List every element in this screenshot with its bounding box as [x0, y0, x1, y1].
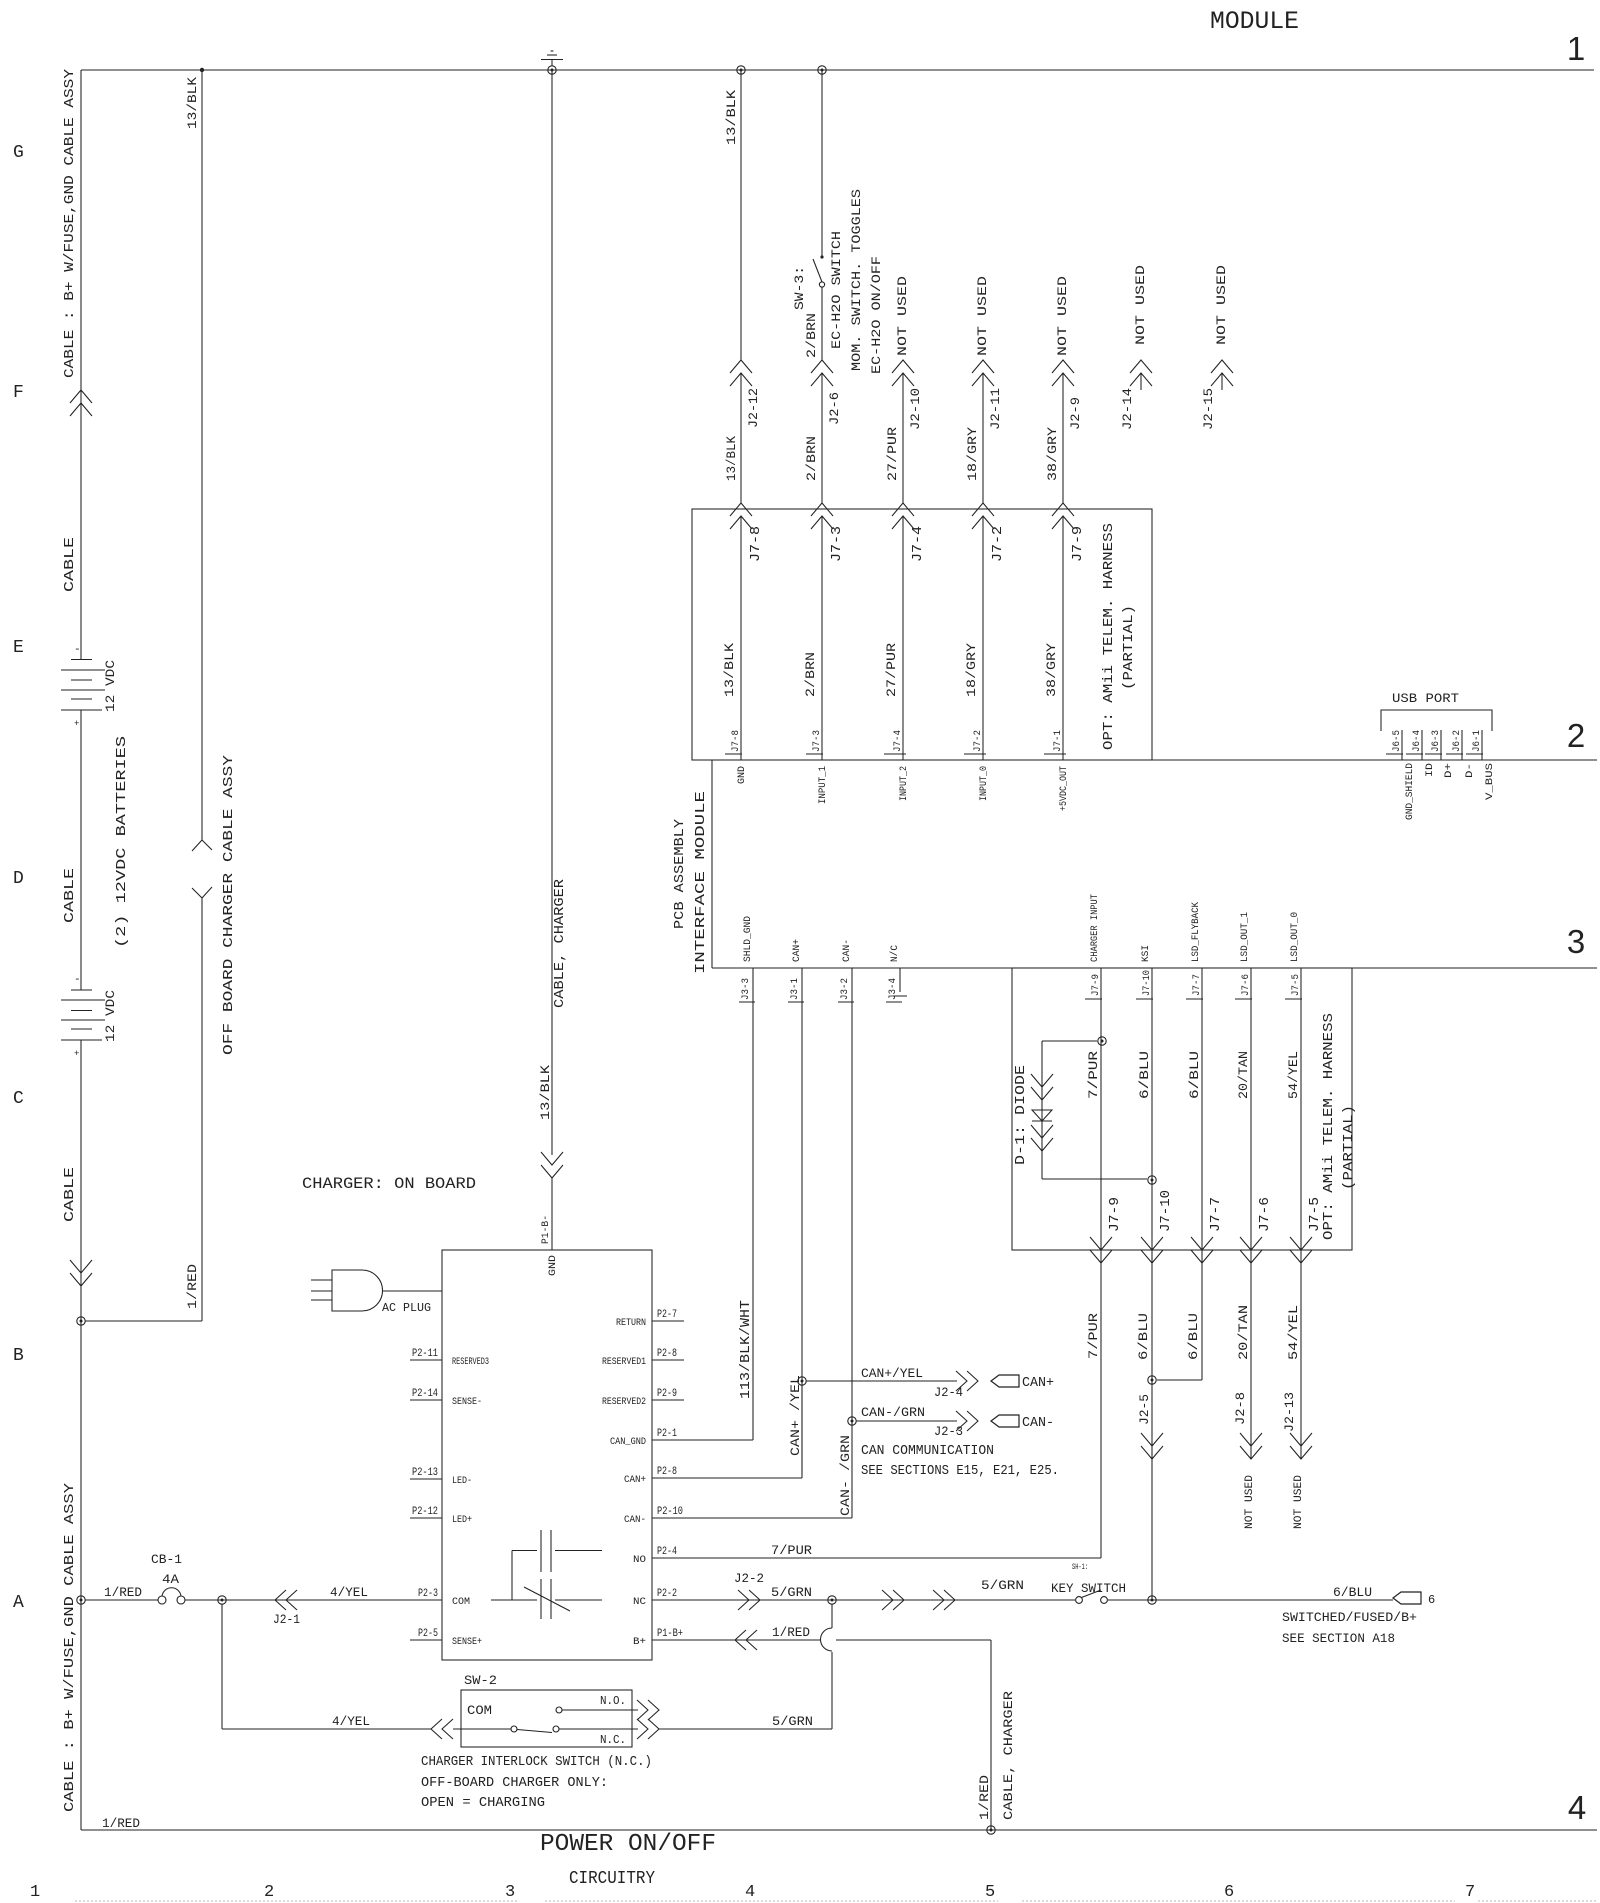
wire 13/BLK above SW-3 [821, 70, 823, 256]
connector chevron at harness box x822 [811, 503, 833, 516]
svg-text:C: C [13, 1089, 24, 1109]
svg-text:J3-3: J3-3 [741, 978, 752, 1000]
svg-text:J7-9: J7-9 [1107, 1197, 1123, 1232]
charger pin stub P2-13 [410, 1478, 442, 1480]
svg-text:1: 1 [30, 1883, 40, 1902]
svg-text:2/BRN: 2/BRN [804, 313, 819, 358]
svg-text:J2-2: J2-2 [734, 1571, 764, 1586]
svg-text:RESERVED1: RESERVED1 [602, 1357, 646, 1368]
switch key switch [1076, 1597, 1083, 1604]
svg-text:7/PUR: 7/PUR [1086, 1051, 1101, 1099]
svg-text:CABLE : B+ W/FUSE,GND CABLE AS: CABLE : B+ W/FUSE,GND CABLE ASSY [62, 1482, 78, 1812]
node junction 6BLU join [1148, 1376, 1156, 1384]
svg-text:P2-8: P2-8 [657, 1466, 677, 1478]
svg-text:P1-B-: P1-B- [541, 1215, 552, 1244]
usb pin tick J6-2 [1461, 730, 1463, 760]
node junction diode top on 7/PUR [1098, 1037, 1106, 1045]
svg-text:J7-7: J7-7 [1192, 974, 1203, 996]
svg-text:-: - [74, 644, 81, 656]
svg-text:PCB ASSEMBLY: PCB ASSEMBLY [672, 818, 688, 929]
wire hop over 5GRN riser [821, 1628, 833, 1651]
svg-text:SENSE-: SENSE- [452, 1397, 482, 1408]
wire 6/BLU KSI down [1151, 1250, 1153, 1600]
svg-text:J2-9: J2-9 [1068, 397, 1083, 430]
battery BAT1 12VDC [61, 644, 105, 729]
svg-text:CAN-: CAN- [624, 1515, 646, 1526]
wire SHLD_GND riser 113/BLK/WHT [752, 968, 754, 1440]
svg-text:4: 4 [745, 1883, 755, 1902]
svg-text:(2) 12VDC BATTERIES: (2) 12VDC BATTERIES [114, 736, 130, 948]
svg-text:54/YEL: 54/YEL [1286, 1051, 1301, 1099]
svg-text:NOT USED: NOT USED [1244, 1475, 1256, 1529]
svg-text:MOM. SWITCH. TOGGLES: MOM. SWITCH. TOGGLES [849, 189, 864, 371]
wire top rail line 1 [81, 69, 1594, 71]
svg-text:6/BLU: 6/BLU [1136, 1313, 1151, 1360]
svg-text:J7-6: J7-6 [1257, 1197, 1273, 1232]
svg-text:POWER ON/OFF: POWER ON/OFF [540, 1831, 716, 1858]
svg-text:6/BLU: 6/BLU [1333, 1585, 1372, 1600]
connector chevron exit x1301 [1290, 1250, 1312, 1263]
svg-text:INTERFACE MODULE: INTERFACE MODULE [693, 791, 709, 974]
svg-text:J2-5: J2-5 [1137, 1394, 1152, 1425]
node junction key switch out [1148, 1596, 1156, 1604]
svg-text:P2-9: P2-9 [657, 1388, 677, 1400]
wire 54/YEL in harness box x1301 [1300, 968, 1302, 1250]
charger pin stub P2-3 [410, 1599, 442, 1601]
svg-text:CAN COMMUNICATION: CAN COMMUNICATION [861, 1443, 994, 1459]
svg-text:13/BLK: 13/BLK [185, 77, 200, 129]
svg-text:J7-7: J7-7 [1208, 1197, 1224, 1232]
svg-text:RESERVED2: RESERVED2 [602, 1397, 646, 1408]
svg-text:EC-H2O ON/OFF: EC-H2O ON/OFF [869, 256, 884, 374]
svg-text:NOT USED: NOT USED [1133, 265, 1148, 345]
wire 7/PUR NO row [652, 1557, 1101, 1559]
node junction ground on rail1 [548, 66, 556, 74]
svg-text:1/RED: 1/RED [104, 1585, 142, 1600]
wire CAN- riser [851, 968, 853, 1518]
connector J2-6 chevron [811, 360, 833, 373]
svg-text:CABLE: CABLE [62, 537, 78, 592]
svg-text:P2-11: P2-11 [412, 1348, 438, 1360]
svg-text:P2-10: P2-10 [657, 1506, 683, 1518]
node open circle 5GRN branch [828, 1596, 836, 1604]
svg-text:B: B [13, 1346, 24, 1366]
node junction A-row left [77, 1596, 85, 1604]
svg-text:7: 7 [1465, 1883, 1475, 1902]
svg-text:D: D [13, 869, 24, 889]
usb pin tick J6-5 [1401, 730, 1403, 760]
svg-text:N/C: N/C [889, 945, 901, 962]
svg-text:NOT USED: NOT USED [1293, 1475, 1305, 1529]
node junction bottom rail [987, 1826, 995, 1834]
svg-text:J3-4: J3-4 [888, 978, 899, 1000]
svg-text:CABLE, CHARGER: CABLE, CHARGER [552, 878, 568, 1008]
wire CAN+/YEL to J2-4 [806, 1380, 957, 1382]
svg-text:J2-12: J2-12 [746, 388, 761, 428]
svg-text:J7-10: J7-10 [1142, 970, 1153, 996]
box charger on-board [442, 1250, 652, 1660]
svg-text:12 VDC: 12 VDC [103, 660, 118, 712]
svg-text:12 VDC: 12 VDC [103, 990, 118, 1042]
wire 4/YEL drop [221, 1604, 223, 1729]
svg-text:18/GRY: 18/GRY [964, 643, 979, 697]
svg-text:LED+: LED+ [452, 1515, 472, 1526]
svg-text:CAN-: CAN- [1022, 1415, 1054, 1431]
svg-text:+5VDC_OUT: +5VDC_OUT [1059, 766, 1070, 811]
connector chevron at harness box x741 [730, 503, 752, 516]
svg-text:LSD_FLYBACK: LSD_FLYBACK [1191, 902, 1202, 962]
svg-text:P2-8: P2-8 [657, 1348, 677, 1360]
usb pin tick J6-3 [1440, 730, 1442, 760]
ac plug symbol [332, 1270, 362, 1311]
svg-text:(PARTIAL): (PARTIAL) [1341, 1105, 1357, 1190]
connector chevron exit x1101 [1090, 1250, 1112, 1263]
svg-text:CAN+: CAN+ [792, 939, 803, 962]
switch SW-3 [820, 255, 823, 258]
svg-text:D-1: DIODE: D-1: DIODE [1013, 1065, 1029, 1165]
svg-text:J7-9: J7-9 [1091, 974, 1102, 996]
svg-text:CAN+: CAN+ [624, 1475, 646, 1486]
svg-text:P2-13: P2-13 [412, 1467, 438, 1479]
svg-text:RESERVED3: RESERVED3 [452, 1357, 489, 1368]
svg-text:7/PUR: 7/PUR [1086, 1313, 1101, 1359]
svg-text:4A: 4A [162, 1572, 179, 1587]
connector J2-2 chevron [749, 1590, 760, 1610]
svg-text:SWITCHED/FUSED/B+: SWITCHED/FUSED/B+ [1282, 1610, 1417, 1625]
connector SW-2 NO exit chevron [648, 1700, 659, 1720]
wire 13/BLK J2-12 [740, 70, 742, 360]
svg-text:CABLE : B+ W/FUSE,GND CABLE AS: CABLE : B+ W/FUSE,GND CABLE ASSY [62, 68, 78, 378]
svg-text:5/GRN: 5/GRN [981, 1578, 1024, 1593]
connector J2-10 chevron [892, 360, 914, 373]
svg-text:INPUT_2: INPUT_2 [899, 766, 910, 801]
svg-text:J7-9: J7-9 [1070, 526, 1086, 562]
svg-text:5/GRN: 5/GRN [771, 1585, 812, 1600]
svg-text:6/BLU: 6/BLU [1137, 1051, 1152, 1099]
svg-text:4/YEL: 4/YEL [330, 1585, 368, 1600]
connector chevron exit x1251 [1240, 1250, 1262, 1263]
svg-text:SH-1:: SH-1: [1072, 1563, 1088, 1572]
svg-text:NOT USED: NOT USED [1214, 265, 1229, 345]
connector J2-3 chevron [967, 1411, 978, 1431]
wire SW-2 NO out [562, 1709, 638, 1711]
svg-text:D-: D- [1465, 763, 1476, 778]
wire 38/GRY J2-9 [1062, 374, 1064, 503]
svg-text:SW-3:: SW-3: [792, 266, 807, 310]
svg-text:J7-6: J7-6 [1241, 974, 1252, 996]
svg-text:CAN+: CAN+ [1022, 1375, 1054, 1391]
connector SW-2 input chevron [431, 1719, 442, 1739]
svg-text:2/BRN: 2/BRN [803, 652, 818, 697]
svg-text:18/GRY: 18/GRY [965, 427, 980, 481]
svg-text:D+: D+ [1444, 763, 1455, 778]
svg-text:J2-6: J2-6 [827, 392, 842, 425]
svg-text:ID: ID [1425, 763, 1436, 777]
svg-text:CAN_GND: CAN_GND [610, 1437, 646, 1448]
svg-text:NOT USED: NOT USED [1055, 276, 1070, 356]
connector J2-11 chevron [972, 360, 994, 373]
svg-text:CHARGER INTERLOCK SWITCH (N.C.: CHARGER INTERLOCK SWITCH (N.C.) [421, 1754, 652, 1770]
svg-text:CHARGER: ON BOARD: CHARGER: ON BOARD [302, 1175, 476, 1193]
svg-text:OPT: AMii TELEM. HARNESS: OPT: AMii TELEM. HARNESS [1321, 1013, 1337, 1240]
connector J2-9 chevron [1052, 360, 1074, 373]
svg-text:J2-14: J2-14 [1120, 388, 1135, 430]
svg-text:5/GRN: 5/GRN [772, 1714, 813, 1729]
svg-text:J7-3: J7-3 [812, 730, 823, 752]
wire 1/RED B+ row [652, 1639, 820, 1641]
node dot at top rail x202 [200, 68, 204, 72]
usb pin tick J6-1 [1481, 730, 1483, 760]
svg-text:J2-11: J2-11 [988, 388, 1003, 430]
svg-text:J2-10: J2-10 [908, 388, 923, 430]
svg-text:J7-8: J7-8 [731, 730, 742, 752]
svg-text:CABLE, CHARGER: CABLE, CHARGER [1001, 1691, 1016, 1820]
svg-text:1/RED: 1/RED [772, 1625, 810, 1640]
svg-text:CB-1: CB-1 [151, 1552, 182, 1567]
svg-text:CAN- /GRN: CAN- /GRN [838, 1435, 853, 1516]
battery BAT2 12VDC [61, 974, 105, 1059]
connector chevron on left wire row F [70, 390, 92, 403]
wire 7/PUR to NO [1100, 1250, 1102, 1558]
node junction CAN- [848, 1417, 856, 1425]
svg-text:LSD_OUT_0: LSD_OUT_0 [1290, 912, 1301, 962]
svg-text:SW-2: SW-2 [464, 1673, 497, 1688]
wire ac plug to charger [383, 1290, 443, 1292]
svg-text:F: F [13, 383, 24, 403]
connector J2-8 chevron [1240, 1446, 1262, 1459]
svg-text:J7-2: J7-2 [973, 730, 984, 752]
svg-text:OPEN = CHARGING: OPEN = CHARGING [421, 1795, 545, 1811]
box OPT AMii telem harness lower [1012, 968, 1352, 1250]
svg-text:J6-1: J6-1 [1472, 730, 1483, 752]
svg-text:J7-5: J7-5 [1307, 1197, 1323, 1232]
svg-text:J7-8: J7-8 [748, 526, 764, 562]
svg-text:COM: COM [467, 1703, 492, 1718]
svg-text:GND_SHIELD: GND_SHIELD [1405, 763, 1416, 820]
svg-text:CAN-: CAN- [842, 939, 853, 962]
svg-text:CABLE: CABLE [62, 868, 78, 923]
svg-text:6/BLU: 6/BLU [1187, 1051, 1202, 1099]
wire 7/PUR in harness box x1101 [1100, 968, 1102, 1250]
svg-text:6: 6 [1224, 1883, 1234, 1902]
wire 2/BRN J2-6 [821, 374, 823, 503]
svg-text:J7-10: J7-10 [1158, 1190, 1174, 1232]
wire N/C stub [899, 968, 901, 992]
svg-text:5: 5 [985, 1883, 995, 1902]
wire diode branch [1042, 1040, 1097, 1042]
svg-text:NO: NO [633, 1555, 646, 1566]
svg-text:MODULE: MODULE [1210, 7, 1299, 36]
svg-text:V_BUS: V_BUS [1485, 763, 1496, 800]
svg-text:P1-B+: P1-B+ [657, 1628, 683, 1640]
svg-text:27/PUR: 27/PUR [885, 427, 900, 481]
svg-text:13/BLK: 13/BLK [722, 643, 737, 697]
svg-text:OFF-BOARD CHARGER ONLY:: OFF-BOARD CHARGER ONLY: [421, 1775, 608, 1791]
svg-text:+: + [74, 1049, 79, 1059]
terminal 6 pill [1393, 1592, 1421, 1604]
connector chevron exit x1152 [1141, 1250, 1163, 1263]
svg-text:CAN+/YEL: CAN+/YEL [861, 1366, 923, 1381]
svg-text:J3-2: J3-2 [840, 978, 851, 1000]
connector chevrons mid pair 1 [893, 1590, 904, 1610]
wire bottom rail line 4 [81, 1829, 1597, 1831]
charger pin stub P2-14 [410, 1399, 442, 1401]
connector J2-14 stub [1130, 360, 1152, 373]
svg-text:2: 2 [264, 1883, 274, 1902]
svg-text:J2-3: J2-3 [934, 1424, 963, 1439]
wire rail line 2 PCB top edge [692, 759, 1597, 761]
connector SW-2 NC exit chevron [648, 1719, 659, 1739]
svg-text:J7-3: J7-3 [829, 526, 845, 562]
box OPT AMii telem harness upper [692, 509, 1152, 760]
svg-text:SEE SECTION A18: SEE SECTION A18 [1282, 1631, 1395, 1646]
charger pin stub P2-11 [410, 1359, 442, 1361]
relay contact link [511, 1551, 513, 1601]
wire 6/BLU in harness box x1152 [1151, 968, 1153, 1250]
svg-text:P2-3: P2-3 [418, 1588, 438, 1600]
svg-text:N.C.: N.C. [600, 1733, 626, 1747]
svg-text:J7-2: J7-2 [990, 526, 1006, 562]
svg-text:RETURN: RETURN [616, 1318, 646, 1329]
wire 5/GRN NC to key switch [652, 1599, 1075, 1601]
connector J2-12 chevron [730, 360, 752, 373]
svg-text:6: 6 [1428, 1593, 1435, 1607]
svg-text:USB PORT: USB PORT [1392, 691, 1459, 706]
svg-text:4: 4 [1568, 1789, 1586, 1826]
svg-text:20/TAN: 20/TAN [1236, 1305, 1251, 1360]
wire CAN+ riser [801, 968, 803, 1478]
diode D-1 symbol [1031, 1087, 1053, 1100]
wire 20/TAN J2-8 [1250, 1250, 1252, 1459]
terminal CAN- pill [991, 1415, 1019, 1427]
svg-text:INPUT_1: INPUT_1 [818, 766, 829, 804]
switch SW-2 contacts [511, 1726, 517, 1732]
svg-text:J7-1: J7-1 [1053, 730, 1064, 752]
svg-text:AC PLUG: AC PLUG [382, 1301, 431, 1315]
svg-text:7/PUR: 7/PUR [771, 1543, 812, 1558]
wire into SW-2 [453, 1728, 511, 1730]
connector chevron at harness box x983 [972, 503, 994, 516]
connector chevron down on left wire row B [70, 1273, 92, 1286]
charger pin stub P2-5 [410, 1639, 442, 1641]
wire 6/BLU in harness box x1202 [1201, 968, 1203, 1250]
ground symbol [541, 59, 563, 61]
svg-text:27/PUR: 27/PUR [884, 643, 899, 697]
svg-text:A: A [13, 1593, 24, 1613]
svg-text:E: E [13, 638, 24, 658]
svg-text:OFF BOARD CHARGER CABLE ASSY: OFF BOARD CHARGER CABLE ASSY [221, 754, 237, 1055]
svg-text:EC-H2O SWITCH: EC-H2O SWITCH [829, 231, 844, 349]
wire 13/BLK charger ground vertical [551, 70, 553, 1155]
node junction diode bottom on 6/BLU [1148, 1176, 1156, 1184]
wire 54/YEL J2-13 [1300, 1250, 1302, 1459]
svg-text:NOT USED: NOT USED [975, 276, 990, 356]
connector chevrons mid pair 2 [944, 1590, 955, 1610]
svg-text:G: G [13, 143, 24, 163]
disconnect symbol upper half [192, 840, 212, 851]
svg-text:SENSE+: SENSE+ [452, 1637, 482, 1648]
usb pin tick J6-4 [1421, 730, 1423, 760]
svg-text:113/BLK/WHT: 113/BLK/WHT [738, 1300, 754, 1399]
svg-text:1/RED: 1/RED [102, 1816, 140, 1831]
svg-text:1/RED: 1/RED [977, 1775, 992, 1820]
svg-text:P2-12: P2-12 [412, 1506, 438, 1518]
wire 6/BLU LSD_FLYBACK jog [1201, 1250, 1203, 1380]
connector J2-5 chevron [1141, 1446, 1163, 1459]
box SW-2 [461, 1690, 632, 1747]
svg-text:2: 2 [1567, 717, 1585, 754]
svg-text:P2-2: P2-2 [657, 1588, 677, 1600]
wire key switch to terminal [1108, 1599, 1393, 1601]
charger pin stub P2-9 RESERVED2 [652, 1399, 684, 1401]
svg-text:J2-13: J2-13 [1282, 1392, 1297, 1432]
svg-text:1: 1 [1567, 30, 1585, 67]
svg-text:LED-: LED- [452, 1476, 472, 1487]
svg-text:OPT: AMii TELEM. HARNESS: OPT: AMii TELEM. HARNESS [1101, 523, 1117, 750]
svg-text:3: 3 [1567, 923, 1585, 960]
charger pin stub P2-8 RESERVED1 [652, 1359, 684, 1361]
svg-text:P2-7: P2-7 [657, 1309, 677, 1321]
svg-text:CABLE: CABLE [62, 1167, 78, 1222]
svg-text:J2-4: J2-4 [934, 1385, 963, 1400]
svg-text:2/BRN: 2/BRN [804, 436, 819, 481]
svg-text:-: - [74, 974, 81, 986]
svg-text:1/RED: 1/RED [185, 1264, 200, 1309]
svg-text:J3-1: J3-1 [790, 978, 801, 1000]
connector chevron at harness box x903 [892, 503, 914, 516]
svg-text:(PARTIAL): (PARTIAL) [1121, 605, 1137, 690]
svg-text:13/BLK: 13/BLK [724, 436, 739, 481]
node junction rail1 x822 [818, 66, 826, 74]
svg-text:LSD_OUT_1: LSD_OUT_1 [1240, 912, 1251, 962]
svg-text:J2-8: J2-8 [1233, 1392, 1248, 1425]
svg-text:J7-4: J7-4 [910, 526, 926, 562]
breaker CB-1 [158, 1596, 166, 1604]
svg-text:J7-4: J7-4 [893, 730, 904, 752]
svg-text:COM: COM [452, 1597, 470, 1608]
svg-text:KEY SWITCH: KEY SWITCH [1051, 1581, 1126, 1596]
svg-text:N.O.: N.O. [600, 1694, 626, 1708]
svg-text:38/GRY: 38/GRY [1044, 643, 1059, 697]
svg-text:CHARGER INPUT: CHARGER INPUT [1090, 894, 1101, 962]
node junction rail1 x741 [737, 66, 745, 74]
svg-text:GND: GND [548, 1255, 559, 1276]
connector chevron down x552 [541, 1165, 563, 1178]
svg-text:KSI: KSI [1141, 945, 1152, 962]
svg-text:3: 3 [505, 1883, 515, 1902]
wire 20/TAN in harness box x1251 [1250, 968, 1252, 1250]
bottom border dotted line [75, 1900, 1597, 1902]
connector B+ chevron [735, 1630, 746, 1650]
terminal CAN+ pill [991, 1375, 1019, 1387]
svg-text:J6-2: J6-2 [1452, 730, 1463, 752]
relay contact NC inside charger [491, 1599, 537, 1601]
svg-text:SHLD_GND: SHLD_GND [743, 916, 754, 962]
svg-text:6/BLU: 6/BLU [1186, 1313, 1201, 1360]
connector chevron exit x1202 [1191, 1250, 1213, 1263]
wire SW-2 NC out [559, 1728, 638, 1730]
connector J2-15 stub [1211, 360, 1233, 373]
svg-text:54/YEL: 54/YEL [1286, 1305, 1301, 1360]
connector J2-13 chevron [1290, 1446, 1312, 1459]
svg-text:20/TAN: 20/TAN [1236, 1051, 1251, 1099]
svg-text:13/BLK: 13/BLK [538, 1065, 553, 1120]
connector chevron at harness box x1063 [1052, 503, 1074, 516]
connector J2-1 chevron [275, 1590, 286, 1610]
wire 1/RED to CB-1 [85, 1599, 158, 1601]
wire 27/PUR J2-10 [902, 374, 904, 503]
wire CAN+ branch [801, 1385, 803, 1473]
